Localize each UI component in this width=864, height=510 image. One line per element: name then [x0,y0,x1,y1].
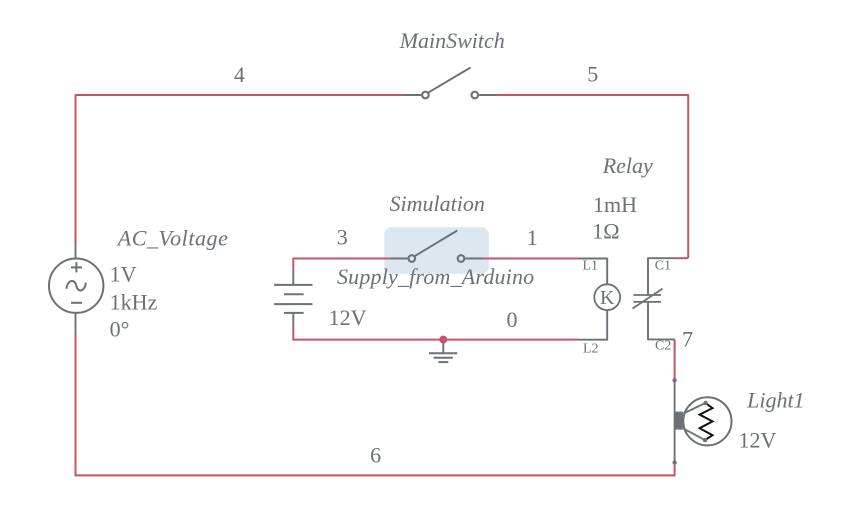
svg-text:1V: 1V [110,262,137,287]
svg-text:4: 4 [234,62,245,87]
svg-text:C2: C2 [655,339,671,354]
svg-text:1kHz: 1kHz [110,289,158,314]
svg-text:1Ω: 1Ω [592,218,619,243]
svg-text:1: 1 [527,225,538,250]
svg-text:12V: 12V [739,427,777,452]
svg-text:L2: L2 [583,341,599,356]
svg-text:Simulation: Simulation [390,191,485,216]
svg-text:C1: C1 [655,258,671,273]
svg-text:3: 3 [337,224,348,249]
svg-text:1mH: 1mH [593,192,637,217]
svg-text:0: 0 [507,307,518,332]
svg-text:0°: 0° [110,316,130,341]
svg-text:5: 5 [587,61,598,86]
svg-text:7: 7 [682,327,693,352]
svg-text:MainSwitch: MainSwitch [399,28,505,53]
svg-text:6: 6 [370,442,381,467]
svg-text:Supply_from_Arduino: Supply_from_Arduino [337,264,534,289]
svg-text:Light1: Light1 [746,387,804,412]
svg-text:AC_Voltage: AC_Voltage [116,225,229,250]
svg-text:Relay: Relay [602,153,653,178]
svg-text:K: K [600,287,615,309]
svg-text:12V: 12V [329,305,367,330]
svg-text:L1: L1 [583,258,599,273]
